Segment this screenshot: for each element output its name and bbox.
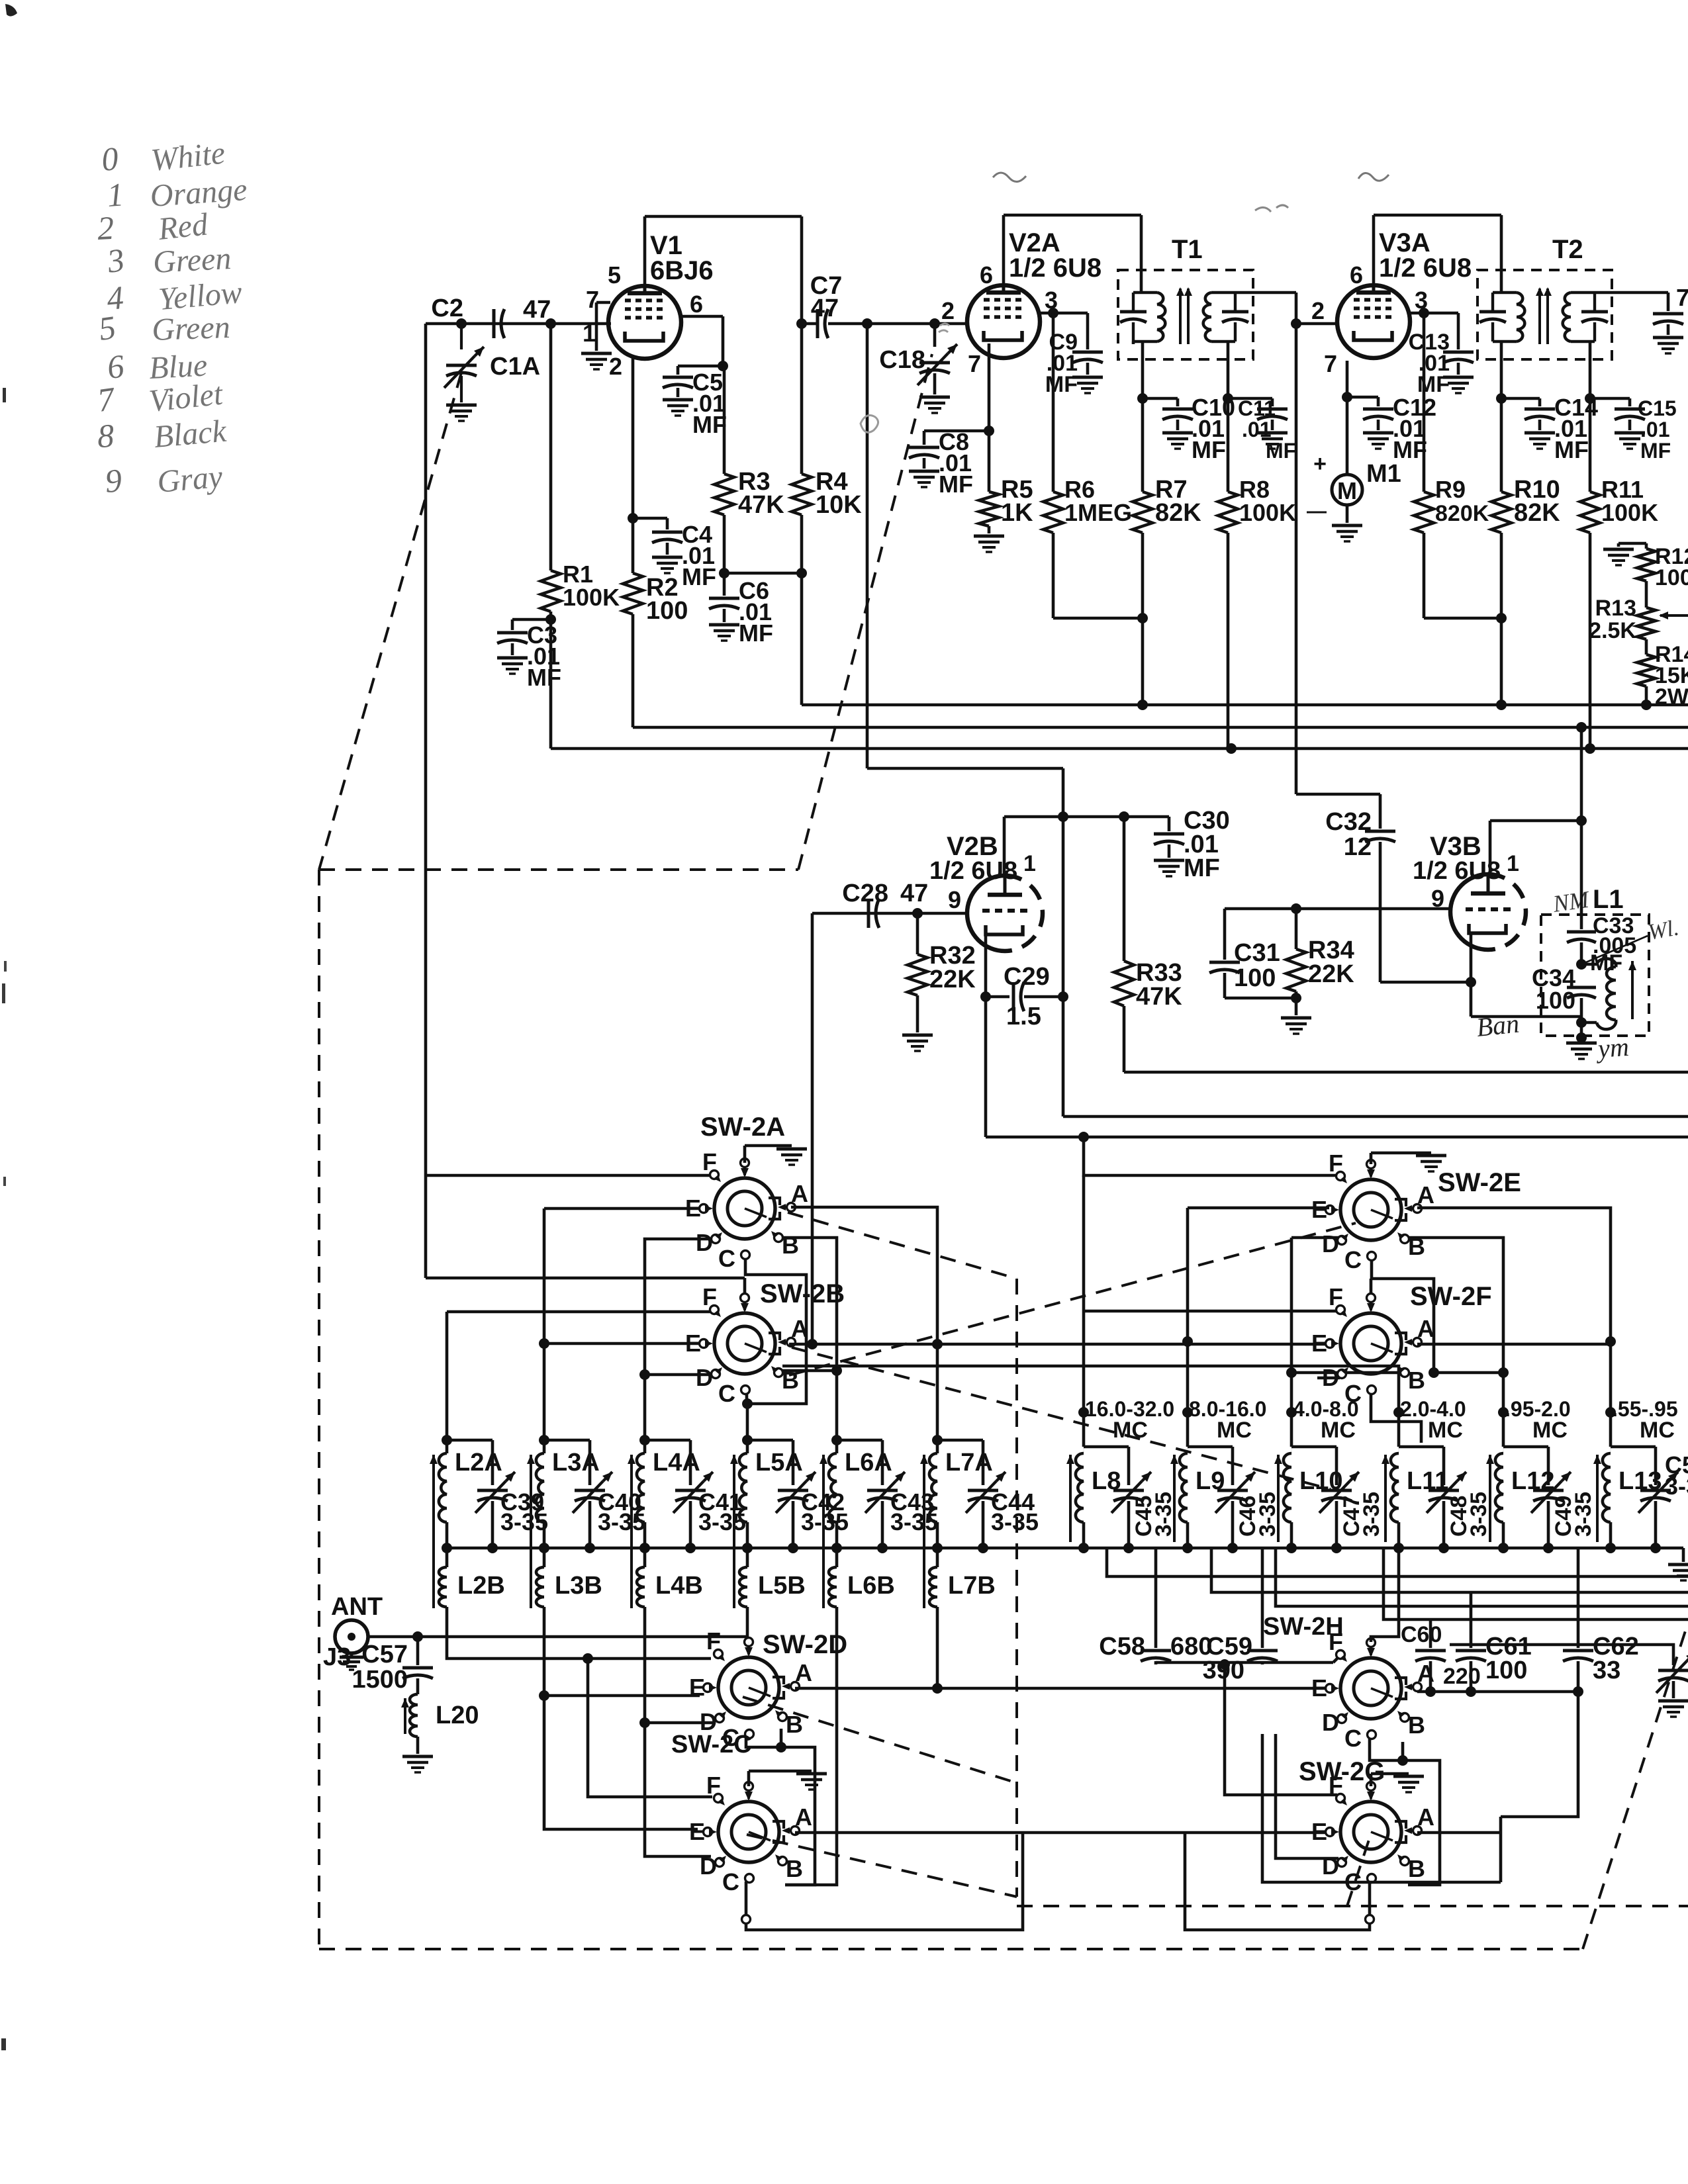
wire C7 to V2A grid [828,322,967,326]
svg-text:33: 33 [1593,1657,1620,1684]
node C61 [1466,1686,1476,1697]
trimmer capacitor C39 [447,1439,492,1442]
node L10 stub [1286,1407,1297,1418]
wire SW-2F A segment to right [1417,1343,1611,1346]
wire x1310 to short rail 4 [866,324,869,768]
resistor R14 [1645,639,1648,655]
R33 rail to right [1124,1071,1688,1074]
svg-text:Black: Black [152,413,228,454]
wire SW-2A A to L7A riser [791,1207,937,1440]
node C joint [742,1398,753,1409]
svg-text:F: F [706,1772,721,1799]
capacitor C29 [986,995,1009,999]
svg-text:MF: MF [939,471,973,498]
capacitor C8 [924,430,989,433]
svg-text:A: A [795,1803,812,1831]
ground for C13 [1443,376,1474,379]
tuning slug arrow L6A [822,1455,825,1608]
node L9 bottom [1182,1543,1193,1553]
capacitor C12 [1347,396,1378,399]
rotary switch SW-2B [714,1313,775,1374]
svg-text:8: 8 [97,417,115,455]
node L4A bottom [639,1543,650,1553]
wire C28 node to V2B grid [917,912,967,915]
wire SW-2G A to box [1417,1831,1501,1835]
handwritten WL pointer [1581,936,1648,964]
svg-text:MC: MC [1532,1418,1568,1443]
T2 primary bottom lead [1500,341,1503,359]
wire osc injection riser x1958 [1295,324,1298,794]
svg-text:6: 6 [690,291,703,318]
node L12 stub [1498,1407,1509,1418]
capacitor C57 [416,1637,420,1665]
svg-text:1/2 6U8: 1/2 6U8 [1379,253,1472,283]
gang dashed SW-2D diagonal [743,1697,1017,1783]
node C14 [1496,393,1507,404]
svg-text:MF: MF [527,664,561,691]
tuning slug arrow L5A [733,1455,735,1608]
svg-text:ym: ym [1594,1032,1630,1064]
svg-text:MC: MC [1428,1418,1463,1443]
resistor R34 [1295,909,1298,949]
node R9 top [1419,308,1429,318]
resistor R7 [1141,398,1145,492]
svg-text:1/2 6U8: 1/2 6U8 [1413,857,1501,885]
svg-text:MC: MC [1113,1418,1148,1443]
node L4B split [639,1717,650,1728]
svg-text:B: B [786,1855,803,1882]
wire L10 riser [1290,1238,1293,1412]
wire feedback line 2382 [1107,1548,1688,1576]
node L9 stub [1182,1407,1193,1418]
wire C58 to SW-2H F [1156,1661,1333,1664]
wire SW-2F D stub [1317,1377,1340,1380]
svg-text:C32: C32 [1325,808,1372,836]
SW-2H rotor feed from L11 column [1371,1548,1399,1642]
capacitor C33 [1580,821,1583,929]
svg-text:2.5K: 2.5K [1589,618,1636,643]
node R3 bottom [719,568,729,578]
svg-text:1: 1 [1023,851,1036,876]
wire SW-2H E line [1327,1688,1329,1689]
ground for C6 [709,623,739,627]
coil L12 [1502,1412,1505,1447]
node R2 top [628,513,638,523]
svg-text:47: 47 [811,295,839,322]
wire SW-2H C/B loop [1370,1738,1440,1885]
svg-text:100: 100 [1655,565,1688,590]
tuning slug arrow L2A [432,1455,435,1608]
wire box right vertical [1499,1817,1503,1882]
svg-text:1: 1 [1507,851,1519,876]
resistor R5 [988,431,991,492]
svg-text:MF: MF [692,411,727,438]
ground for L1 [1580,1023,1583,1038]
svg-text:E: E [1311,1196,1327,1223]
wire C31 R34 top [1225,907,1450,911]
variable capacitor C1A [460,324,463,349]
node R1 bottom [545,614,556,625]
resistor R1 [549,324,553,570]
node C15 [1585,393,1595,404]
svg-text:100: 100 [1485,1657,1527,1684]
svg-text:L6A: L6A [845,1449,892,1477]
svg-text:47K: 47K [1136,983,1182,1011]
ground for C15 [1615,432,1645,435]
wire R6 bottom to R7 column [1053,617,1143,620]
node L1 top [1576,815,1587,826]
coil L6B bottom wire to SW-2C B [785,1607,837,1885]
svg-text:100: 100 [1536,987,1575,1014]
wire SW-2B D [645,1373,712,1377]
resistor R10 [1500,398,1503,492]
svg-text:D: D [1322,1852,1339,1880]
T2 secondary output to next stage grid [1595,291,1612,295]
node osc grid tap [807,1339,818,1349]
V3A plate rail to T2 [1372,215,1376,285]
svg-text:B: B [1408,1711,1425,1739]
svg-text:1: 1 [106,175,125,214]
node L11 bottom [1393,1543,1404,1553]
node L10 on B line [1286,1367,1297,1378]
wire SW-2D C/B loop to SW-2C B [746,1737,815,1885]
svg-text:D: D [696,1229,713,1256]
svg-text:220: 220 [1443,1664,1481,1689]
svg-text:100: 100 [646,597,688,625]
node L13 on E line [1605,1336,1616,1347]
svg-text:2: 2 [1311,297,1325,324]
wire C7 left plate to screen column [802,322,818,326]
svg-text:MF: MF [1184,854,1220,882]
coil L8 [1082,1412,1086,1447]
svg-text:E: E [1311,1330,1327,1357]
wire C32 to V3B cathode [1380,981,1471,984]
svg-text:SW-2E: SW-2E [1438,1168,1521,1197]
node C7 left [796,318,807,329]
coil L20 [410,1694,418,1737]
faint marks near V2A pin7 [939,324,949,332]
ground for C14 [1524,432,1555,435]
ground for C11 [1257,432,1288,435]
svg-text:3-35: 3-35 [991,1508,1039,1535]
gang dashed to SW-2G rotor [1347,1832,1372,1906]
svg-text:A: A [1417,1181,1434,1208]
svg-text:Red: Red [156,206,211,247]
node C1A junction [456,318,467,329]
ground for R32 [902,1034,933,1037]
node V2B cathode [980,991,991,1002]
coil L3B bottom wire to SW-2D E [544,1607,700,1696]
gang dashed SW-2B to SW-2E [789,1223,1356,1375]
svg-text:E: E [689,1818,705,1845]
faint pencil scribble above V2A [993,173,1026,182]
svg-text:F: F [702,1148,717,1175]
svg-text:82K: 82K [1155,499,1201,527]
wire SW-2A C [745,1259,806,1440]
wire screen vertical x1211 [800,216,804,474]
node R7 rail1 [1137,700,1148,710]
resistor R11 [1589,398,1592,492]
wire V3B cathode jog to grid circuit [1470,982,1473,1017]
capacitor C61 [1470,1592,1473,1648]
node R10 rail1 [1496,700,1507,710]
resistor R13 potentiometer [1645,581,1648,608]
node L11 stub [1393,1407,1404,1418]
svg-text:B: B [1408,1855,1425,1882]
ground for C5 [663,398,693,402]
svg-text:MC: MC [1321,1418,1356,1443]
coil L13 [1609,1412,1613,1447]
svg-text:MC: MC [1217,1418,1252,1443]
svg-text:3-35: 3-35 [1255,1492,1280,1537]
wire SW-2C A to SW-2G E [795,1831,1327,1835]
svg-text:F: F [702,1283,717,1310]
coil L5A [742,1435,753,1445]
faint pencil scribble near T1 [1255,205,1288,212]
capacitor C34 [1567,986,1596,989]
svg-text:T2: T2 [1552,235,1583,264]
svg-text:L7A: L7A [945,1449,993,1477]
wire F column from cathode rail [1084,1137,1337,1175]
svg-text:D: D [700,1852,717,1880]
wire SW-2G F [1225,1664,1337,1795]
tube V3A [1337,285,1410,358]
node F riser [583,1653,593,1664]
wire SW-2A B to L6A riser [782,1238,837,1440]
resistor R33 [1123,817,1126,961]
node L7B on A line [932,1683,943,1694]
svg-text:MC: MC [1640,1418,1675,1443]
coil L9 [1186,1412,1190,1447]
svg-text:MF: MF [1393,436,1427,463]
svg-text:C: C [722,1868,739,1895]
svg-text:E: E [1311,1674,1327,1702]
trimmer capacitor C46 [1188,1445,1233,1449]
svg-text:D: D [1322,1709,1339,1736]
SW-2G C stub [1368,1882,1372,1914]
wire SW-2A F [426,1174,711,1177]
capacitor C13 [1443,351,1474,354]
node C28/R32 [912,908,923,919]
R13 wiper arrow [1660,614,1688,617]
wire V2A pin7 cathode [988,343,991,431]
svg-text:2W: 2W [1655,684,1688,709]
wire L1 feed from rail2 [1580,727,1583,821]
gang dashed inner bottom [1017,1905,1688,1907]
capacitor C62 [1577,1548,1580,1648]
svg-text:MF: MF [682,563,716,590]
capacitor C32 [1379,794,1382,829]
wire SW-2E E from L9 riser [1188,1206,1329,1210]
oscillator coil box L1 dashed [1541,915,1649,1036]
V3B plate lead to L1 [1489,821,1492,874]
wire to SW-2C E [544,1696,698,1829]
rotary switch SW-2D [718,1657,779,1718]
tuning slug arrow L3A [530,1455,532,1608]
wire short rail4 drop to C29 column [1062,768,1065,1116]
gang dashed left border vertical [318,870,320,1949]
node X C5/R3 [718,361,728,371]
node L1 bottom [1576,1017,1587,1028]
node R6 top [1048,308,1058,318]
svg-text:C29: C29 [1004,963,1050,991]
variable capacitor C63 [1389,1619,1391,1620]
coil L6A [831,1435,842,1445]
rotary switch SW-2E [1340,1179,1401,1240]
node plate line x1606 [1058,811,1068,822]
wire feedback line 2406 [1211,1548,1688,1592]
capacitor C7 [816,309,820,338]
gang dashed SW-2A diagonal [788,1212,1017,1279]
svg-text:B: B [782,1232,799,1259]
wire V1 pin6 plate lead [680,315,723,318]
node L7A bottom [932,1543,943,1553]
node L8 stub [1078,1407,1089,1418]
node C60 [1425,1686,1436,1697]
ground for C18 [919,396,950,399]
wire SW-2A D [645,1239,712,1440]
coil L10 [1290,1412,1293,1447]
ground for C12 [1363,432,1393,435]
capacitor C3 [512,618,551,621]
tuning slug arrow L12 [1489,1455,1491,1542]
T1 primary bottom lead [1132,341,1135,344]
rotary switch SW-2C [718,1801,779,1862]
faint pencil scribble above V3A [1358,173,1389,181]
ground for R34 [1295,998,1298,1015]
gang dashed SW-2B A diagonal [792,1347,1331,1489]
V2B cathode lead [984,934,988,997]
left bank common rail [447,1547,1683,1550]
svg-text:.01: .01 [1640,418,1669,441]
gang dashed vertical x1536 [1015,1279,1018,1897]
node L4A/D2B [639,1369,650,1380]
wire feedback line 2447 [1383,1548,1688,1619]
node C57 [412,1631,423,1642]
L1 coil [1581,963,1597,966]
coil L2A [442,1435,452,1445]
svg-text:ANT: ANT [331,1593,383,1621]
wire main grid line V1 left segment [426,322,611,326]
svg-text:Gray: Gray [156,459,224,500]
wire SW-2B F from L2A riser [447,1310,711,1314]
ground for L20 [402,1755,433,1758]
ground for C4 [652,556,682,559]
resistor R32 [916,913,919,954]
V2A plate rail to T1 [1002,215,1006,285]
node L10 bottom [1286,1543,1297,1553]
svg-text:7: 7 [1676,284,1688,311]
svg-text:C: C [718,1245,735,1272]
svg-text:L3B: L3B [555,1572,602,1600]
capacitor C9 [1072,351,1103,354]
svg-text:MF: MF [739,619,773,647]
node L12 on B line [1498,1367,1509,1378]
wire SW-2B C stub [745,1390,749,1404]
tuning slug arrow L8 [1069,1455,1072,1542]
svg-text:SW-2H: SW-2H [1263,1613,1344,1641]
resistor R4 [792,474,812,515]
svg-text:C58: C58 [1099,1633,1145,1661]
wire SW-2E A to L13 riser [1417,1208,1611,1412]
V2B plate line [1004,815,1169,819]
svg-text:0: 0 [100,140,120,178]
node T1 out [1291,318,1301,329]
tuning slug arrow L10 [1277,1455,1280,1542]
svg-text:7: 7 [1324,350,1337,377]
svg-text:C15: C15 [1638,396,1677,420]
trimmer capacitor C43 [837,1439,882,1442]
svg-text:3-35: 3-35 [1466,1492,1491,1537]
svg-text:9: 9 [1431,885,1444,912]
svg-text:D: D [696,1364,713,1391]
node B+ dropper x1310 [862,318,872,329]
svg-text:C1A: C1A [490,353,540,381]
wire F column continue to SW-2F F and L8 [1082,1175,1086,1311]
resistor R6 [1052,313,1055,492]
antenna jack J3 [335,1620,368,1653]
node L3A/E2B [539,1338,549,1349]
svg-text:C: C [1344,1725,1362,1752]
wire SW-2A E to L3A riser [544,1207,700,1210]
capacitor C6 [723,573,726,596]
svg-text:A: A [1417,1315,1434,1342]
svg-text:M1: M1 [1366,460,1401,488]
scan specks left edge [3,388,6,402]
T1 secondary output [1235,291,1253,295]
svg-text:100K: 100K [1239,499,1296,526]
wire SW-2B E [544,1342,700,1345]
svg-text:SW-2D: SW-2D [763,1630,847,1659]
svg-text:2: 2 [97,209,115,247]
node C29 right [1058,991,1068,1002]
gang dashed diagonal to C18 [798,354,932,870]
rotary switch SW-2A [714,1178,775,1239]
coil L4B [643,1548,647,1567]
wire SW-2H A line [1417,1690,1578,1694]
svg-text:L5A: L5A [755,1449,803,1477]
svg-text:—: — [1307,500,1327,522]
wire L9 riser [1186,1208,1190,1412]
trimmer capacitor C50 [1611,1445,1656,1449]
svg-text:6: 6 [1350,261,1363,289]
resistor R3 [723,366,726,474]
variable capacitor C18 [933,324,937,347]
svg-text:22K: 22K [1308,960,1354,988]
wire to SW-2C D [645,1723,711,1856]
svg-text:L7B: L7B [948,1572,996,1600]
wire SW-2F F line [1084,1310,1337,1313]
node L7A/A-line [932,1339,943,1349]
ground for J3 [350,1653,353,1656]
svg-text:C: C [1344,1246,1362,1273]
SW-2A rotor ground [744,1253,745,1255]
node L6A/B2B [831,1365,842,1376]
trimmer capacitor C42 [747,1439,793,1442]
svg-text:+: + [1313,451,1327,477]
ground for C30 [1154,859,1184,862]
trimmer capacitor C44 [937,1439,983,1442]
svg-text:E: E [1311,1818,1327,1845]
tube V2A [967,285,1040,358]
gang dashed bottom border [319,1948,1583,1950]
svg-text:1MEG: 1MEG [1064,499,1132,526]
faint smudge near C18 [861,416,878,433]
trimmer capacitor C45 [1084,1445,1129,1449]
ground next stage [1653,336,1683,340]
svg-text:1.5: 1.5 [1006,1003,1041,1030]
node L13 stub [1605,1407,1616,1418]
